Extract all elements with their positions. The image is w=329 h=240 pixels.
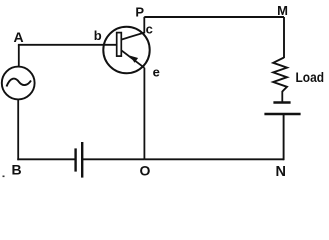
- emitter lead: [121, 50, 144, 68]
- wire B to battery: [17, 158, 75, 160]
- wire O to N: [144, 158, 284, 160]
- transistor base bar: [117, 33, 122, 57]
- svg-text:B: B: [12, 161, 22, 177]
- wire battery to O: [82, 158, 144, 160]
- resistor Load zigzag: [273, 58, 287, 92]
- svg-text:O: O: [140, 163, 151, 179]
- emitter arrow: [130, 56, 138, 63]
- svg-text:M: M: [277, 3, 288, 18]
- wire A to base: [18, 44, 117, 46]
- wire M down to load: [283, 17, 285, 58]
- battery V1 long plate: [81, 142, 83, 178]
- svg-text:A: A: [13, 29, 23, 45]
- svg-text:b: b: [94, 28, 102, 43]
- wire source to B: [17, 99, 19, 160]
- transistor Q1 body: [103, 27, 149, 73]
- wire emitter to O: [143, 68, 145, 160]
- svg-text:N: N: [275, 164, 285, 180]
- battery V2 short plate: [273, 101, 290, 103]
- battery V1 short plate: [74, 148, 76, 171]
- battery V2 long plate: [264, 113, 300, 115]
- collector lead: [121, 17, 144, 40]
- wire A vertical: [18, 45, 20, 67]
- svg-text:Load: Load: [296, 69, 325, 85]
- svg-text:P: P: [135, 5, 144, 20]
- ac source G1: [2, 67, 35, 100]
- wire P to M: [144, 16, 284, 18]
- wire battery to N: [283, 114, 285, 160]
- ac sine wave: [7, 79, 32, 87]
- svg-text:c: c: [146, 22, 153, 37]
- speck bottom left: [3, 176, 5, 178]
- svg-text:e: e: [153, 65, 160, 80]
- wire load to battery: [281, 91, 283, 103]
